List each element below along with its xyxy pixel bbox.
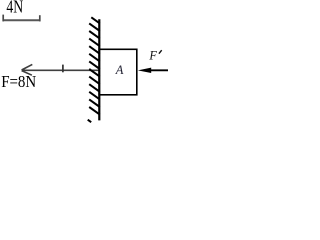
svg-text:4N: 4N	[6, 0, 23, 17]
svg-text:F=8N: F=8N	[1, 72, 36, 91]
svg-text:F: F	[148, 48, 157, 62]
svg-text:A: A	[115, 63, 124, 77]
